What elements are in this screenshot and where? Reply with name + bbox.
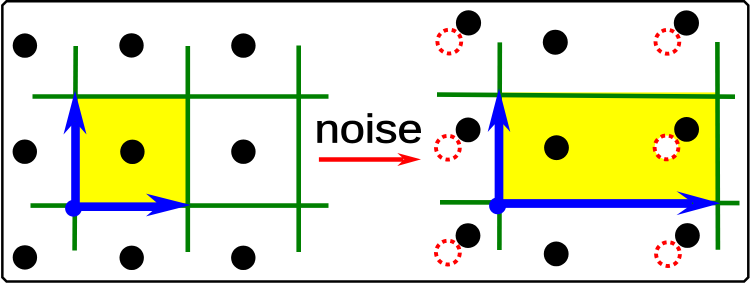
ideal position marker row1 col1 (red dashed circle): [437, 30, 461, 54]
left grid vertical line 1: [75, 46, 76, 251]
left origin (blue dot): [65, 200, 82, 217]
left grid vertical line 2: [186, 46, 191, 252]
left basis vector b (vertical blue arrow): [64, 91, 87, 209]
left grid horizontal line 2: [31, 203, 329, 208]
left grid vertical line 3: [296, 46, 301, 253]
ideal position marker row3 col1 (red dashed circle): [436, 241, 460, 265]
ideal position marker row1 col3 (red dashed circle): [656, 30, 680, 54]
atom row1 col2: [543, 30, 568, 55]
left lattice point row3 col2: [120, 246, 144, 270]
left unit cell (yellow): [75, 97, 188, 206]
left basis vector a (horizontal blue arrow): [74, 194, 191, 217]
right grid vertical line 1: [497, 42, 502, 250]
right unit cell (yellow): [500, 92, 718, 203]
left lattice point row3 col1: [13, 245, 37, 269]
displaced atom row1 col1: [456, 10, 481, 35]
left lattice point row1 col2: [119, 33, 143, 57]
left grid horizontal line 1: [33, 94, 329, 99]
atom row2 col2: [544, 135, 569, 160]
left lattice point row1 col3: [231, 33, 255, 57]
svg-text:noise: noise: [315, 108, 423, 152]
right basis vector b (vertical blue arrow): [488, 88, 511, 205]
left lattice point row2 col1: [13, 140, 37, 164]
right grid horizontal line 1: [437, 95, 735, 97]
right grid vertical line 2: [715, 42, 720, 250]
left lattice point row1 col1: [13, 33, 37, 57]
right origin (blue dot): [489, 197, 506, 214]
noise arrow (red): [319, 153, 421, 166]
left lattice point row2 col2: [120, 140, 144, 164]
left lattice point row2 col3: [231, 140, 255, 164]
displaced atom row2 col3: [674, 117, 699, 142]
displaced atom row3 col1: [456, 223, 481, 248]
right basis vector a (stretched horizontal blue arrow): [498, 191, 721, 215]
left lattice point row3 col3: [231, 246, 255, 270]
ideal position marker row2 col1 (red dashed circle): [436, 136, 460, 160]
displaced atom row3 col3: [675, 223, 700, 248]
ideal position marker row3 col3 (red dashed circle): [656, 242, 680, 266]
displaced atom row2 col1: [456, 117, 481, 142]
displaced atom row1 col3: [674, 10, 699, 35]
atom row3 col2: [544, 242, 569, 267]
ideal position marker row2 col3 (red dashed circle): [655, 136, 679, 160]
right grid horizontal line 2: [440, 200, 740, 205]
